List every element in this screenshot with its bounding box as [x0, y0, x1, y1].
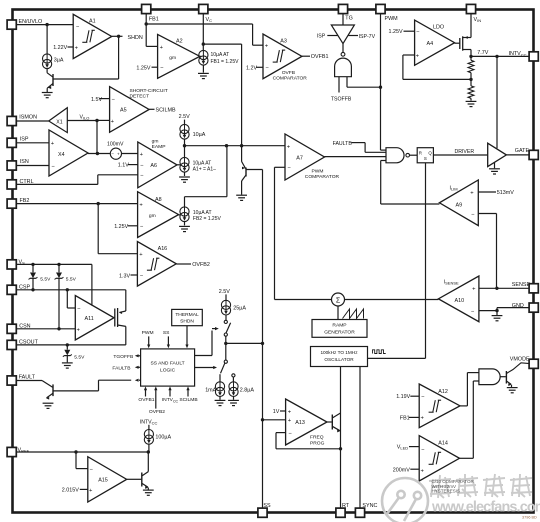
- svg-text:A1+ = A1–: A1+ = A1–: [193, 166, 217, 172]
- svg-text:A10: A10: [455, 298, 465, 304]
- svg-text:CTRL: CTRL: [20, 179, 34, 185]
- svg-text:A16: A16: [158, 246, 168, 252]
- svg-text:gm: gm: [169, 56, 176, 61]
- svg-text:ILIM: ILIM: [450, 185, 458, 191]
- svg-text:TG: TG: [345, 15, 353, 21]
- svg-text:A3: A3: [280, 38, 287, 44]
- svg-text:2.8µA: 2.8µA: [240, 387, 255, 393]
- svg-text:+: +: [470, 190, 474, 196]
- svg-text:10µA AT: 10µA AT: [211, 52, 230, 58]
- svg-text:SHDN: SHDN: [128, 35, 143, 41]
- svg-text:FB2 = 1.25V: FB2 = 1.25V: [193, 216, 222, 222]
- svg-text:+: +: [288, 409, 292, 415]
- svg-text:3796 BD: 3796 BD: [522, 516, 537, 520]
- svg-text:PWM: PWM: [142, 330, 154, 336]
- svg-text:1.3V: 1.3V: [119, 273, 130, 279]
- svg-text:5.5V: 5.5V: [74, 354, 85, 360]
- svg-text:GENERATOR: GENERATOR: [324, 330, 355, 336]
- svg-text:gm: gm: [152, 139, 159, 144]
- svg-text:OVFB1: OVFB1: [138, 397, 154, 403]
- svg-text:2.5V: 2.5V: [179, 114, 190, 120]
- svg-text:EAMP: EAMP: [152, 144, 166, 150]
- svg-text:10µA: 10µA: [193, 132, 206, 138]
- svg-text:A15: A15: [98, 477, 108, 483]
- svg-text:OVFB1: OVFB1: [311, 54, 329, 60]
- svg-text:HYSTERESIS: HYSTERESIS: [432, 488, 461, 493]
- svg-text:INTVCC: INTVCC: [140, 419, 158, 425]
- svg-text:DETECT: DETECT: [130, 94, 150, 100]
- svg-text:www.elecfans.com: www.elecfans.com: [431, 500, 540, 516]
- svg-text:200mV: 200mV: [393, 467, 410, 473]
- svg-text:−: −: [416, 30, 420, 36]
- svg-text:Q: Q: [428, 150, 432, 155]
- svg-text:FREQ: FREQ: [310, 435, 324, 441]
- svg-text:−: −: [111, 152, 114, 157]
- svg-text:−: −: [160, 66, 164, 72]
- svg-text:SS AND FAULT: SS AND FAULT: [151, 361, 185, 367]
- svg-text:OVFB2: OVFB2: [149, 409, 165, 415]
- svg-text:1.22V: 1.22V: [53, 45, 67, 51]
- svg-text:SHDN: SHDN: [180, 318, 194, 324]
- svg-text:1mA: 1mA: [205, 387, 216, 393]
- svg-text:5.5V: 5.5V: [66, 276, 77, 282]
- svg-text:ISP: ISP: [317, 34, 326, 40]
- svg-text:1.1V: 1.1V: [118, 163, 129, 169]
- svg-text:SS: SS: [163, 330, 170, 336]
- svg-text:SCILMB: SCILMB: [179, 397, 197, 403]
- svg-text:LDO: LDO: [433, 25, 444, 31]
- svg-text:A14: A14: [438, 441, 448, 447]
- svg-text:SHORT-CIRCUIT: SHORT-CIRCUIT: [130, 88, 168, 94]
- svg-text:ISENSE: ISENSE: [444, 279, 459, 285]
- svg-text:FB1 = 1.25V: FB1 = 1.25V: [211, 59, 240, 65]
- svg-text:100µA: 100µA: [155, 435, 171, 441]
- svg-text:A9: A9: [456, 202, 463, 208]
- svg-text:+: +: [288, 418, 292, 424]
- svg-text:VREF: VREF: [18, 447, 30, 453]
- svg-text:OSCILLATOR: OSCILLATOR: [324, 357, 354, 362]
- svg-text:OVFB: OVFB: [282, 70, 295, 76]
- svg-text:ISP-7V: ISP-7V: [359, 34, 376, 40]
- svg-text:COMPARATOR: COMPARATOR: [305, 174, 340, 180]
- svg-text:VC: VC: [206, 17, 213, 23]
- svg-text:5.5V: 5.5V: [40, 276, 51, 282]
- svg-text:A4: A4: [427, 41, 434, 47]
- svg-text:513mV: 513mV: [497, 190, 514, 196]
- svg-text:FAULTB: FAULTB: [333, 141, 353, 147]
- svg-text:+: +: [117, 152, 120, 157]
- svg-text:INTVCC: INTVCC: [509, 51, 527, 57]
- svg-text:1.25V: 1.25V: [114, 224, 128, 230]
- svg-text:ISMON: ISMON: [19, 114, 37, 120]
- svg-text:SENSE: SENSE: [512, 282, 531, 288]
- svg-text:EN/UVLO: EN/UVLO: [19, 19, 43, 25]
- svg-text:LOGIC: LOGIC: [160, 368, 176, 374]
- svg-text:FAULT: FAULT: [19, 374, 36, 380]
- svg-text:FB1: FB1: [149, 17, 159, 23]
- svg-text:1.5V: 1.5V: [91, 97, 102, 103]
- svg-text:A1: A1: [89, 19, 96, 25]
- svg-text:2.5V: 2.5V: [219, 289, 230, 295]
- svg-text:1V: 1V: [273, 409, 280, 415]
- svg-text:A13: A13: [295, 420, 305, 426]
- svg-text:R: R: [419, 150, 422, 155]
- svg-text:X4: X4: [58, 152, 65, 158]
- svg-text:A12: A12: [438, 389, 448, 395]
- svg-text:7.7V: 7.7V: [477, 50, 488, 56]
- svg-text:2.015V: 2.015V: [62, 488, 79, 494]
- svg-text:A8: A8: [155, 197, 162, 203]
- svg-text:TGOFFB: TGOFFB: [113, 354, 133, 360]
- svg-text:+: +: [287, 145, 291, 151]
- svg-text:A11: A11: [85, 316, 94, 322]
- svg-text:THERMAL: THERMAL: [175, 312, 199, 318]
- svg-text:OVFB2: OVFB2: [192, 262, 210, 268]
- svg-text:3µA: 3µA: [54, 58, 64, 64]
- svg-text:ISP: ISP: [20, 136, 29, 142]
- svg-text:25µA: 25µA: [233, 305, 246, 311]
- svg-text:1.19V: 1.19V: [396, 394, 410, 400]
- svg-text:100mV: 100mV: [107, 141, 124, 147]
- svg-text:DRIVER: DRIVER: [455, 149, 475, 155]
- svg-text:A7: A7: [296, 155, 303, 161]
- svg-text:FB2: FB2: [20, 198, 30, 204]
- svg-text:100kHz TO 1MHz: 100kHz TO 1MHz: [320, 350, 358, 355]
- svg-text:VMODE: VMODE: [510, 356, 530, 362]
- svg-text:FB1: FB1: [400, 416, 410, 422]
- svg-text:VIN: VIN: [474, 17, 482, 23]
- svg-text:PROG: PROG: [310, 441, 325, 447]
- svg-text:VLED: VLED: [397, 444, 409, 450]
- svg-text:GATE: GATE: [515, 148, 530, 154]
- svg-text:TSOFFB: TSOFFB: [331, 97, 352, 103]
- svg-text:A6: A6: [150, 163, 157, 169]
- svg-text:S: S: [424, 156, 427, 161]
- svg-text:COMPARATOR: COMPARATOR: [273, 75, 308, 81]
- svg-text:RAMP: RAMP: [332, 323, 346, 329]
- svg-text:1.25V: 1.25V: [136, 66, 150, 72]
- svg-text:A2: A2: [176, 39, 183, 45]
- svg-text:1.25V: 1.25V: [389, 29, 403, 35]
- svg-text:PWM: PWM: [312, 169, 324, 175]
- svg-text:FAULTB: FAULTB: [112, 365, 130, 371]
- svg-text:ISN: ISN: [20, 159, 29, 165]
- svg-text:gm: gm: [149, 214, 156, 219]
- svg-text:+: +: [265, 44, 269, 50]
- svg-text:1.2V: 1.2V: [246, 65, 257, 71]
- svg-text:GND: GND: [512, 303, 524, 309]
- svg-text:A5: A5: [120, 108, 127, 114]
- svg-text:SCILMB: SCILMB: [156, 107, 176, 113]
- svg-text:+: +: [51, 141, 55, 147]
- svg-text:PWM: PWM: [385, 16, 399, 22]
- svg-text:Σ: Σ: [336, 297, 341, 304]
- svg-text:X1: X1: [56, 119, 62, 125]
- svg-text:VILO: VILO: [80, 114, 90, 120]
